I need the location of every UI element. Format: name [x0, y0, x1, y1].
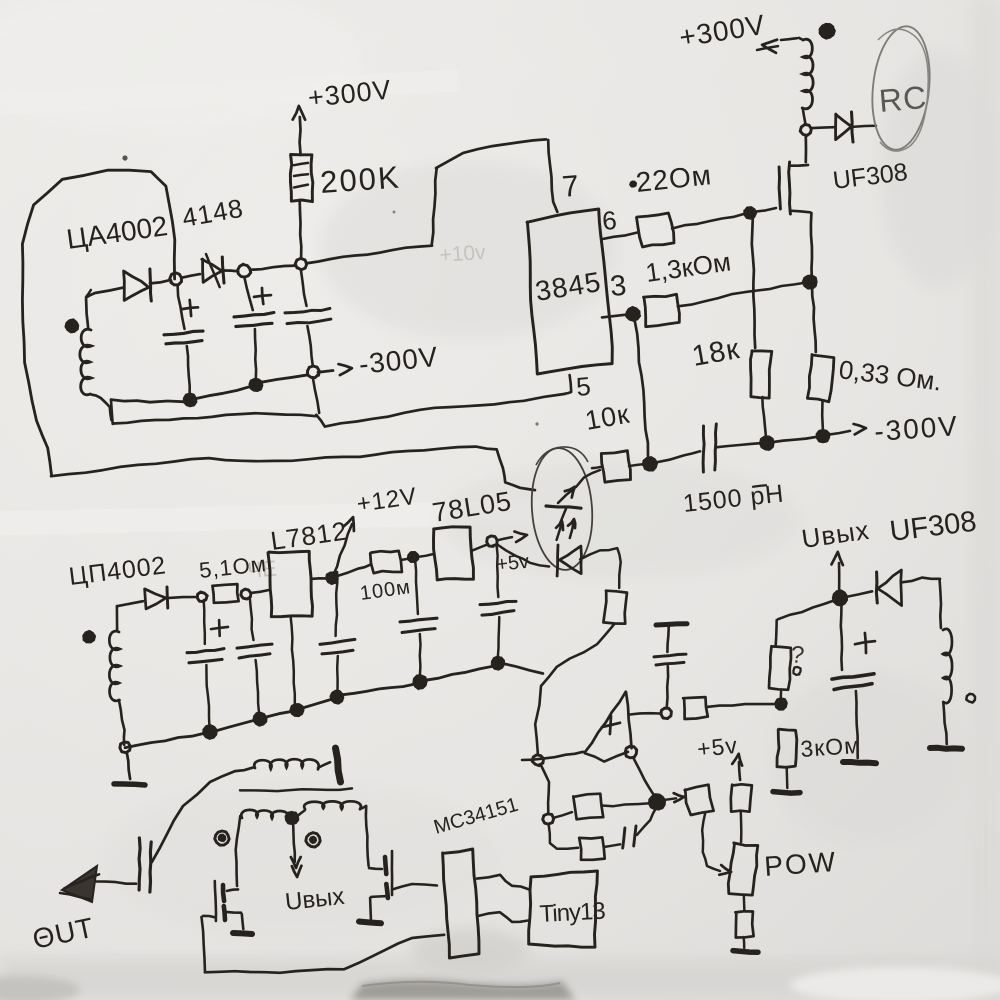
ic U3 L7812 body	[268, 551, 313, 616]
wire R14 curve to POW	[702, 813, 731, 875]
label 200K	[319, 159, 402, 200]
label 5,1Ом	[198, 551, 268, 583]
led U2 diode	[557, 545, 581, 576]
wire main dc rail top-left	[86, 246, 432, 298]
node D bus junction C1	[184, 394, 196, 407]
capacitor C9	[480, 545, 516, 658]
wire R6 to node N	[535, 624, 614, 753]
diode D3 UF308	[812, 112, 876, 142]
wire opto collector to 10к	[592, 467, 601, 468]
pin 6 label	[601, 205, 618, 236]
diode D2	[202, 254, 224, 287]
resistor R2 22Ом	[637, 213, 675, 247]
wire to L7812	[251, 590, 269, 593]
pencil note faded	[246, 556, 277, 583]
node L 18к bottom	[760, 437, 774, 450]
power +300V arrow top-right	[677, 9, 797, 53]
svg-text:POW: POW	[763, 846, 838, 882]
inductor L1 winding	[80, 299, 112, 420]
inductor L2 winding	[799, 38, 813, 124]
node T1 center tap	[286, 812, 299, 824]
label 100м	[359, 576, 413, 605]
node U fb lower	[543, 814, 554, 824]
resistor R10 after op-amp	[683, 697, 708, 719]
wire R2 to node G	[672, 213, 746, 228]
node P5	[487, 536, 497, 547]
label 4148 diode D2	[180, 193, 246, 233]
label 3845	[533, 266, 603, 307]
wire node F drop	[313, 378, 319, 413]
winding polarity dot L3	[83, 631, 95, 642]
node R cap junction	[661, 708, 671, 719]
winding polarity dot L1	[66, 320, 79, 333]
resistor R6 opto series	[603, 591, 627, 624]
wire node V arrow to R14	[662, 793, 684, 802]
wire 10к to node J	[629, 464, 645, 466]
terminal ring right	[306, 833, 320, 847]
label 1,3кОм	[644, 246, 733, 288]
svg-text:3: 3	[609, 270, 628, 303]
ground G5	[930, 748, 962, 749]
connector OUT arrow	[60, 866, 99, 902]
resistor R13 fb	[553, 794, 650, 820]
ground G4	[773, 792, 800, 794]
wire op-amp input	[522, 752, 583, 760]
wire op-amp to node R	[630, 713, 660, 714]
op-amp U7	[585, 692, 632, 762]
svg-text:-300V: -300V	[873, 410, 960, 447]
core T1 line	[240, 788, 352, 791]
transistor Q1 mosfet	[779, 136, 810, 214]
wire secondary end tick	[336, 748, 341, 782]
capacitor C12 output	[832, 604, 875, 758]
node B junction diode D2 cathode	[238, 264, 251, 277]
pin 3 wire	[602, 314, 628, 317]
power +12V arrow	[332, 483, 419, 577]
wire op-amp out down	[633, 758, 654, 796]
wire Q3 gate to driver	[393, 884, 437, 889]
ic U4 78L05 body	[434, 527, 474, 580]
output Uвых arrow right	[800, 515, 872, 592]
power +5v arrow pow	[696, 732, 742, 780]
label MC34151	[431, 794, 520, 839]
inductor T1 primary left	[241, 810, 287, 819]
capacitor C3	[285, 270, 331, 366]
resistor R4 18к	[751, 351, 772, 437]
capacitor C5 polarized	[187, 600, 228, 727]
node P2	[241, 589, 251, 599]
wire R10 to node S	[707, 704, 777, 707]
resistor R7 10к	[601, 451, 630, 483]
node J 1500pF junction	[643, 457, 657, 470]
node E bus junction C2	[250, 379, 263, 391]
potentiometer POW body	[728, 843, 758, 895]
svg-text:7: 7	[561, 170, 581, 204]
wire bus return to ground pin	[111, 394, 565, 427]
wire led cathode	[580, 548, 621, 588]
wire node G down to 18к	[752, 218, 755, 348]
node A junction diode D1 cathode	[170, 273, 182, 285]
label 1500 pF	[682, 480, 786, 518]
resistor R1 200K	[290, 117, 312, 258]
optocoupler U2 body	[528, 446, 596, 572]
node Q1b	[203, 725, 216, 738]
node S fb divider	[775, 698, 786, 709]
node Q4b	[331, 691, 344, 704]
ground G3	[359, 922, 381, 924]
capacitor C1 polarized	[164, 285, 203, 396]
ground G1	[114, 752, 145, 785]
label POW	[763, 846, 838, 882]
resistor R15 fb lower	[579, 837, 605, 860]
wire node S up to R11	[779, 690, 782, 700]
label 0,33 Ом	[837, 354, 943, 396]
capacitor C8	[400, 560, 437, 677]
svg-text:3кОм: 3кОм	[800, 732, 862, 762]
diode D1	[124, 269, 152, 301]
inductor T1 primary right	[296, 801, 366, 817]
node Q3b	[291, 704, 304, 716]
wire L7812 out	[311, 577, 328, 580]
label 10к	[583, 399, 632, 436]
resistor R3 1,3кОм	[644, 294, 680, 326]
node P1	[197, 592, 207, 602]
output Uвых arrow transformer	[284, 825, 346, 916]
resistor R14 to pot	[685, 785, 714, 815]
svg-text:+5v: +5v	[495, 551, 530, 576]
node Q0 bus left end	[120, 742, 130, 753]
ic U6 Tiny13 body	[529, 871, 598, 947]
node F bus junction C3	[308, 366, 320, 378]
inductor T1 secondary winding	[254, 759, 330, 769]
svg-text:5: 5	[575, 371, 592, 402]
wire node G to gate	[755, 208, 776, 212]
node Q2b	[254, 713, 267, 726]
node I source junction	[803, 276, 817, 289]
wire out coupling	[96, 882, 136, 884]
wire to 78L05 box	[417, 554, 434, 557]
wire driver to tiny upper	[477, 875, 529, 890]
diode D5 UF308	[845, 570, 940, 606]
svg-text:?: ?	[789, 641, 805, 669]
terminal dot L4	[966, 694, 975, 703]
node M 0,33 bottom	[817, 430, 830, 442]
svg-text:Tiny13: Tiny13	[539, 898, 606, 928]
pin 7 label	[561, 170, 581, 204]
resistor R5 0,33 Ом	[807, 355, 834, 431]
resistor R11 unknown	[769, 646, 791, 690]
pin 5 label	[575, 371, 592, 402]
resistor R9 100м	[370, 551, 402, 573]
winding polarity dot L2	[820, 24, 835, 39]
node Q6b	[492, 657, 504, 670]
node T out junction	[833, 591, 847, 606]
resistor R12 3кОм	[777, 729, 797, 788]
node C junction 200K bottom	[295, 258, 307, 269]
transistor Q3 mosfet right	[366, 806, 392, 919]
terminal ring left	[215, 831, 229, 845]
terminal o mark	[794, 667, 801, 675]
label RC	[877, 79, 928, 119]
wire cap to secondary	[152, 768, 253, 862]
wire node T left	[776, 600, 835, 645]
wire riser to pin7	[432, 139, 558, 245]
resistor R8 5,1Ом	[212, 584, 238, 603]
label ЦА4002 diode D1	[65, 210, 170, 255]
wire R15 to C13	[604, 844, 620, 847]
capacitor C7	[320, 572, 355, 692]
wire node N down	[541, 765, 549, 813]
capacitor C2 polarized	[234, 277, 274, 380]
pin 3 label	[609, 270, 628, 303]
wire R3 to node I	[678, 283, 806, 307]
pin 5 stub	[565, 375, 571, 394]
wire node H down to node J	[635, 320, 648, 456]
label 78L05	[430, 486, 514, 528]
wire led anode	[497, 545, 549, 567]
wire node P3 to 100м	[336, 564, 371, 576]
ic U5 MC34151 body	[443, 849, 479, 958]
label UF308 top	[831, 158, 909, 195]
wire node L to node M	[772, 437, 817, 442]
resistor R17 pow bottom	[735, 895, 753, 948]
node P3	[326, 573, 337, 584]
label 18к	[690, 333, 743, 373]
svg-text:+10v: +10v	[439, 241, 487, 267]
node P4	[408, 552, 418, 562]
power -300V arrow lower	[828, 410, 960, 447]
svg-text:6: 6	[601, 205, 618, 236]
led U2 arrows	[556, 519, 575, 540]
label 22Ом	[630, 159, 713, 198]
svg-text:+5v: +5v	[696, 732, 739, 762]
capacitor C6	[237, 597, 272, 714]
label OUT	[30, 912, 97, 955]
node H pin3 junction	[627, 307, 641, 321]
capacitor C4 1500pF	[655, 424, 762, 472]
node N feedback junction	[532, 755, 543, 766]
power -300V arrow upper	[339, 341, 440, 380]
wire fb lower chain	[549, 824, 578, 849]
inductor L4 winding	[940, 580, 952, 744]
ground G2	[233, 933, 252, 934]
label ЦП4002	[67, 551, 168, 591]
label ? resistor	[789, 641, 805, 669]
node K drain junction	[800, 125, 811, 136]
net RC blob	[867, 23, 936, 152]
wire 100м to 78L05	[401, 558, 411, 560]
wire source down right side	[811, 213, 816, 352]
wire Q2 gate loop	[202, 916, 445, 973]
pencil note +10v	[439, 241, 487, 267]
node V sum junction	[649, 794, 665, 809]
node G gate junction	[744, 207, 756, 218]
diode D4	[117, 587, 197, 609]
pin 6 wire	[602, 233, 637, 240]
label L7812	[269, 515, 350, 555]
wire ground bus 12V block	[125, 664, 543, 748]
power +300V arrow top-left	[293, 74, 393, 119]
capacitor C10 coupling	[139, 838, 151, 892]
wire driver to tiny lower	[478, 912, 528, 922]
inductor L3 winding	[109, 606, 124, 745]
ic U1 3845 body	[527, 209, 612, 374]
label UF308 right	[888, 506, 978, 548]
label 3кОм	[800, 732, 862, 762]
power +5v arrow	[495, 532, 530, 576]
ground G6	[843, 762, 876, 763]
transistor Q2 mosfet left	[215, 816, 244, 929]
resistor R16 pow top	[731, 784, 752, 842]
node Q5b	[414, 676, 427, 690]
svg-text:RC: RC	[877, 79, 928, 119]
capacitor C11 ref	[654, 624, 687, 708]
wire input transformer enclosure loop	[22, 170, 174, 476]
wire L7812 gnd	[291, 616, 295, 705]
wire 78L05 out	[472, 544, 488, 551]
ground G7	[733, 951, 758, 953]
op-amp output ring	[625, 746, 636, 758]
transistor U2 phototransistor	[546, 470, 600, 524]
wire -300V bus	[111, 371, 333, 403]
label Tiny13	[539, 898, 606, 928]
capacitor C13 fb	[623, 808, 656, 848]
wire long run to optocoupler	[51, 447, 535, 491]
svg-text:200K: 200K	[319, 159, 402, 200]
